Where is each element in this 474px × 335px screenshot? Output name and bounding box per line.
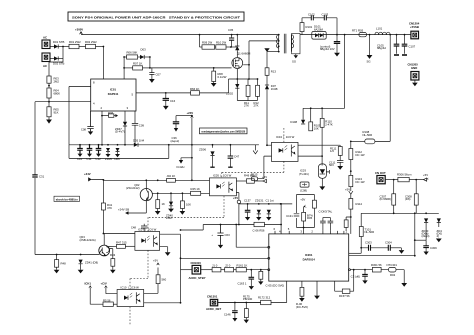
wire Q2 base row xyxy=(152,192,209,194)
resistor J12 xyxy=(221,263,234,272)
capacitor C07 xyxy=(149,68,161,83)
svg-text:SG: SG xyxy=(292,59,296,63)
resistor R203 xyxy=(344,216,351,231)
svg-text:C-05 (DC-5V0): C-05 (DC-5V0) xyxy=(266,283,285,287)
svg-text:IC05 | 1C6 W: IC05 | 1C6 W xyxy=(213,174,232,178)
capacitor C163 xyxy=(237,270,254,290)
svg-text:+24V: +24V xyxy=(84,172,91,176)
capacitor C12 below bus xyxy=(96,144,102,161)
node vcc branch xyxy=(123,56,125,58)
wire output bottom row xyxy=(349,255,415,257)
wire IC01 pin FB to divider xyxy=(49,101,91,103)
svg-text:C146: C146 xyxy=(224,312,231,316)
capacitor C09 xyxy=(132,111,145,145)
diode D101 dual xyxy=(312,25,326,39)
resistor R46 xyxy=(180,193,192,214)
svg-text:CN1310: CN1310 xyxy=(191,261,202,265)
svg-text:1K: 1K xyxy=(162,202,166,206)
node +24V left xyxy=(84,172,92,182)
shunt regulator IC03 TL431 xyxy=(299,164,329,190)
IC201 bottom pin2 network xyxy=(296,281,308,309)
resistor R45 xyxy=(191,187,201,196)
wire to IC01 VIN xyxy=(102,47,104,80)
connector CN1205 GND xyxy=(408,62,419,86)
IC201 top pin stubs xyxy=(274,227,348,234)
wire bus mid xyxy=(212,145,214,148)
svg-text:D03: D03 xyxy=(141,48,147,52)
svg-text:47K: 47K xyxy=(107,206,112,210)
resistor R04 xyxy=(47,88,60,107)
ground below R05 xyxy=(46,120,52,124)
svg-text:+5V: +5V xyxy=(262,175,267,179)
wire stby row xyxy=(181,257,268,259)
wire IC04 left pins xyxy=(264,145,272,177)
resistor R57 xyxy=(153,259,167,284)
transistor Q1 6A60M mosfet xyxy=(232,52,251,69)
svg-text:91K: 91K xyxy=(54,111,59,115)
resistor R48 xyxy=(54,255,66,274)
svg-text:C137: C137 xyxy=(244,198,251,202)
svg-text:(D6): (D6) xyxy=(405,197,411,201)
resistor R11 xyxy=(244,79,250,107)
wire ground return frame xyxy=(69,145,169,159)
svg-text:R101: R101 xyxy=(306,25,313,29)
svg-text:R06 56K: R06 56K xyxy=(127,51,138,55)
svg-text:R114: R114 xyxy=(356,202,363,206)
zener ZD47 xyxy=(115,111,127,145)
wire IC01 left pin to frame xyxy=(69,87,91,145)
svg-text:C304: C304 xyxy=(385,241,392,245)
svg-text:NTC301: NTC301 xyxy=(387,263,398,267)
svg-text:ZD02: ZD02 xyxy=(226,91,233,95)
resistor R111 xyxy=(330,146,342,160)
svg-text:ZD131: ZD131 xyxy=(255,198,264,202)
transistor Q2 xyxy=(126,180,152,200)
svg-text:6A20M: 6A20M xyxy=(314,27,324,31)
svg-text:27K: 27K xyxy=(254,103,259,107)
svg-text:C11: C11 xyxy=(87,157,92,161)
svg-text:+5VSB: +5VSB xyxy=(410,25,419,29)
svg-text:C1 1st: C1 1st xyxy=(266,198,274,202)
resistor R41 xyxy=(101,203,112,234)
svg-text:AC: AC xyxy=(43,64,47,68)
svg-text:C3 (d6): C3 (d6) xyxy=(351,275,360,279)
svg-text:(C08): (C08) xyxy=(300,188,307,192)
wire IC04 right pin1 xyxy=(298,145,340,146)
svg-text:50V: 50V xyxy=(329,163,334,167)
resistor R306 xyxy=(385,173,423,182)
svg-text:GND: GND xyxy=(411,66,417,70)
svg-text:680K: 680K xyxy=(54,92,61,96)
capacitor C202 xyxy=(323,218,333,231)
svg-text:J1 0: J1 0 xyxy=(212,263,218,267)
svg-text:SONY PS4 ORIGINAL POWER UNIT: SONY PS4 ORIGINAL POWER UNIT ADP-160CR S… xyxy=(72,16,240,20)
wire long mid vertical xyxy=(180,234,182,303)
wire IC05 out to +5V node xyxy=(236,193,239,201)
resistor R138 xyxy=(253,222,283,232)
resistor R05 xyxy=(47,107,59,120)
resistor R08 gate pulldown xyxy=(211,67,227,87)
svg-text:CN1301: CN1301 xyxy=(207,295,218,299)
capacitor C47 xyxy=(228,152,240,167)
svg-text:C303: C303 xyxy=(365,241,372,245)
svg-text:D108: D108 xyxy=(290,120,297,124)
diode D07 xyxy=(265,84,278,145)
optocoupler IC05 xyxy=(210,174,237,196)
svg-text:D05 1N4: D05 1N4 xyxy=(133,139,144,143)
capacitor C309 xyxy=(415,240,437,255)
diode D03 xyxy=(140,48,150,60)
IC201 main block xyxy=(269,234,349,281)
svg-text:D01 STB: D01 STB xyxy=(53,40,64,44)
svg-text:J02 1K: J02 1K xyxy=(167,174,176,178)
wire aux winding tap xyxy=(267,51,279,53)
svg-text:2M2: 2M2 xyxy=(54,80,60,84)
node +5V arrow right xyxy=(262,175,267,183)
capacitor C16 xyxy=(163,92,176,110)
svg-text:C63: C63 xyxy=(225,233,231,237)
svg-text:C131: C131 xyxy=(286,214,293,218)
capacitor C103 xyxy=(322,12,338,34)
svg-text:10K: 10K xyxy=(314,126,319,130)
fuse F101 xyxy=(352,28,367,36)
capacitor C36 xyxy=(171,115,193,143)
box regulator loop xyxy=(286,195,316,234)
resistor R06 node xyxy=(101,111,118,118)
capacitor C137 xyxy=(244,198,251,220)
svg-text:ebook-bn-4880.tv: ebook-bn-4880.tv xyxy=(56,197,78,201)
capacitor C106 xyxy=(402,34,416,55)
component C112 xyxy=(300,182,309,192)
svg-text:R01 2W2: R01 2W2 xyxy=(69,40,81,44)
svg-text:+300V: +300V xyxy=(75,28,83,32)
svg-text:R05: R05 xyxy=(307,216,313,220)
resistor R09 xyxy=(200,40,215,49)
svg-text:C-DIGITAL: C-DIGITAL xyxy=(319,209,333,213)
node +5V circle xyxy=(233,196,241,204)
optocoupler IC10 xyxy=(117,286,144,307)
resistor R03 xyxy=(47,76,59,88)
svg-text:4]: 4] xyxy=(437,234,440,238)
node ICH1 arrow xyxy=(85,282,104,305)
svg-text:C107: C107 xyxy=(409,45,416,49)
wire long left rail xyxy=(35,102,100,255)
svg-text:R48: R48 xyxy=(61,261,67,265)
wire source network bottom xyxy=(237,100,257,102)
resistor J02 in rail xyxy=(167,174,176,182)
diode D05 in bus xyxy=(133,139,146,147)
resistor R07 xyxy=(124,61,150,70)
capacitor C11 below bus xyxy=(87,144,93,161)
svg-text:(D-560R): (D-560R) xyxy=(380,197,392,201)
svg-text:C05: C05 xyxy=(228,28,234,32)
resistor R110 xyxy=(320,108,333,165)
svg-text:(2SB-2222A): (2SB-2222A) xyxy=(80,238,96,242)
svg-text:R49 680: R49 680 xyxy=(244,174,255,178)
resistor R12 xyxy=(254,78,260,107)
svg-text:C-06 R56: C-06 R56 xyxy=(253,229,265,233)
zener ZD301 xyxy=(422,212,430,240)
wire IC01 pin2 down xyxy=(101,111,103,145)
svg-text:27K: 27K xyxy=(244,103,249,107)
svg-text:(DC-5V0): (DC-5V0) xyxy=(296,305,308,309)
wire Q3 base link xyxy=(108,245,116,247)
resistor R301 xyxy=(371,263,382,272)
svg-text:R07 1K: R07 1K xyxy=(133,61,142,65)
IC201 bottom pin1 wire xyxy=(271,281,287,302)
svg-text:C103: C103 xyxy=(322,12,329,16)
wire Q1 source down xyxy=(236,69,238,79)
capacitor C105 xyxy=(377,34,399,55)
resistor R47 xyxy=(116,240,135,248)
svg-text:C10: C10 xyxy=(77,157,83,161)
svg-text:DAP2014: DAP2014 xyxy=(303,258,316,262)
svg-text:D06: D06 xyxy=(115,157,121,161)
svg-text:+5V: +5V xyxy=(423,173,428,177)
wire right output down xyxy=(403,270,405,283)
wire rectifier join xyxy=(49,47,63,77)
node rectifier junction xyxy=(62,46,64,48)
svg-text:PB/100: PB/100 xyxy=(243,297,253,301)
svg-text:C31: C31 xyxy=(39,175,45,179)
svg-text:sombatgenerator@yahoo.com SM3: sombatgenerator@yahoo.com SM32020 xyxy=(201,129,245,133)
wire sense row right xyxy=(361,212,439,214)
wire IC04 right pin2 to TL431 xyxy=(298,155,322,157)
resistor R01 xyxy=(69,40,86,49)
resistor R204 xyxy=(258,269,284,288)
resistor R101 snubber xyxy=(300,18,313,35)
wire Q1 aux right xyxy=(243,41,249,79)
svg-text:ZD06: ZD06 xyxy=(199,147,206,151)
label box website xyxy=(54,196,80,201)
connector CN1204 +5VSB xyxy=(409,21,420,38)
IC201 bottom pin4 network xyxy=(335,269,355,298)
wire IC10 right pins xyxy=(144,284,158,294)
resistor R02 xyxy=(85,40,103,49)
svg-text:R02 2W2: R02 2W2 xyxy=(85,40,97,44)
svg-text:R43: R43 xyxy=(110,253,116,257)
wire source row xyxy=(229,78,258,80)
wire ground bus under IC01 xyxy=(69,144,134,146)
wire clamp drop xyxy=(199,35,201,47)
svg-text:+5V: +5V xyxy=(233,196,238,200)
svg-text:ZD05: ZD05 xyxy=(105,157,112,161)
grounds under base row xyxy=(212,160,214,167)
wire sense vertical drop xyxy=(303,35,345,109)
IC201 bottom pin3 ground xyxy=(314,281,320,299)
fuse R108 NL-50R xyxy=(351,130,375,144)
wire right drop xyxy=(414,213,416,255)
resistor R114 xyxy=(349,199,363,234)
diode D01 xyxy=(50,40,64,48)
node +5Vdet arrow xyxy=(101,282,118,294)
node +24V SB arrow xyxy=(118,207,146,214)
svg-text:IC04 | 1C6 W: IC04 | 1C6 W xyxy=(276,135,295,139)
resistor R307 xyxy=(380,180,396,215)
svg-text:DC 1W: DC 1W xyxy=(356,180,365,184)
capacitor C10 below bus xyxy=(77,144,83,161)
svg-text:+24V: +24V xyxy=(187,111,194,115)
resistor R175 xyxy=(243,294,253,323)
resistor R112 xyxy=(349,149,365,176)
wire +5V row xyxy=(239,203,292,205)
svg-text:IC201: IC201 xyxy=(305,253,313,257)
capacitor C201 xyxy=(320,218,326,231)
transistor Q3 xyxy=(80,235,110,256)
transformer T1 xyxy=(277,33,301,63)
wire loop to IC201 pin xyxy=(235,224,269,249)
node secondary junction xyxy=(344,34,346,36)
svg-text:C48: C48 xyxy=(131,225,137,229)
svg-text:DAP041: DAP041 xyxy=(108,92,119,96)
resistor R13 xyxy=(265,68,276,85)
connector AC line xyxy=(42,36,50,49)
connector CN1303 OUT xyxy=(375,171,386,184)
svg-text:DC 1W: DC 1W xyxy=(356,153,365,157)
wire source to IC01 sense xyxy=(136,79,229,93)
svg-text:+5V: +5V xyxy=(153,259,158,263)
svg-text:R15? 56: R15? 56 xyxy=(339,294,350,298)
svg-text:R10 2W: R10 2W xyxy=(216,40,226,44)
capacitor C304 inline xyxy=(385,241,404,254)
node feedback taps xyxy=(310,107,312,109)
dashed feedback lines xyxy=(130,128,284,325)
node +5V arrow xyxy=(345,187,353,198)
resistor R109 xyxy=(309,108,321,131)
svg-text:C47: C47 xyxy=(234,154,240,158)
svg-text:2x1K: 2x1K xyxy=(166,216,173,220)
wire regulator chain xyxy=(350,141,352,148)
title block xyxy=(68,12,244,21)
resistor R56 xyxy=(103,299,117,307)
svg-text:ZD41 (D8): ZD41 (D8) xyxy=(85,261,98,265)
connector AC neutral xyxy=(42,53,50,68)
resistor R172 xyxy=(218,295,271,304)
wire +300V rail xyxy=(81,34,279,36)
zener ZD06 xyxy=(199,147,214,160)
optocoupler IC04 xyxy=(272,135,299,161)
svg-text:6Bg/4d: 6Bg/4d xyxy=(377,46,386,50)
zener ZD132 xyxy=(266,198,274,220)
zener ZD131 xyxy=(255,198,264,220)
capacitor C63 xyxy=(211,224,230,249)
node +5V out arrow xyxy=(423,173,428,181)
resistor R49 xyxy=(236,174,263,184)
node +24V top xyxy=(187,111,194,180)
wire gate node join xyxy=(149,57,151,68)
svg-text:+5V: +5V xyxy=(300,197,305,201)
svg-text:ACDC_DET: ACDC_DET xyxy=(206,307,222,311)
svg-text:IC42H: IC42H xyxy=(177,165,185,169)
capacitor C48 xyxy=(131,224,148,232)
wire gate-drive branch left xyxy=(123,57,125,79)
svg-text:+24V SB: +24V SB xyxy=(118,207,129,211)
capacitor C146 xyxy=(224,303,238,322)
wire mid-right riser xyxy=(360,213,362,253)
diode D06 below bus xyxy=(115,144,121,161)
svg-text:+C/V: +C/V xyxy=(101,282,107,286)
node +300V xyxy=(75,28,83,35)
svg-text:RT1 R05: RT1 R05 xyxy=(352,28,364,32)
resistor J11 xyxy=(201,263,221,272)
svg-text:NL-50R: NL-50R xyxy=(363,133,373,137)
wire to R01 xyxy=(63,46,69,48)
svg-text:C16: C16 xyxy=(170,99,176,103)
resistor R308 xyxy=(405,180,418,214)
capacitor C301 xyxy=(351,270,368,284)
svg-text:R47 315: R47 315 xyxy=(116,240,127,244)
resistor R161 xyxy=(234,263,270,272)
op-amp controller IC01 DAP041 xyxy=(91,79,136,111)
resistor R66 xyxy=(190,87,200,95)
resistor R06g xyxy=(124,51,140,60)
svg-text:1N48: 1N48 xyxy=(271,87,278,91)
svg-text:0.1/2W: 0.1/2W xyxy=(218,75,227,79)
svg-text:R45 1K: R45 1K xyxy=(191,187,200,191)
svg-text:AC: AC xyxy=(43,36,47,40)
wire primary tap to Q1 aux xyxy=(249,40,279,42)
diode D108 xyxy=(290,108,305,124)
svg-text:R13: R13 xyxy=(271,70,277,74)
wire gate line to Q1 xyxy=(150,67,232,69)
svg-text:10K: 10K xyxy=(186,203,191,207)
wire +24V rail xyxy=(92,178,210,181)
svg-text:CN OUT: CN OUT xyxy=(375,171,386,175)
capacitor C303 inline xyxy=(361,241,388,251)
svg-text:L101: L101 xyxy=(376,26,383,30)
svg-text:1/6: 1/6 xyxy=(330,149,334,153)
svg-text:(2kq4): (2kq4) xyxy=(422,234,430,238)
wire bus continue xyxy=(146,144,192,146)
diode D02 xyxy=(50,56,64,65)
diode D04 drain clamp xyxy=(235,34,239,51)
resistor T101 xyxy=(359,227,363,237)
svg-text:(depol): (depol) xyxy=(171,139,180,143)
wire Q3 collector drop xyxy=(102,180,104,203)
svg-text:R306 56om: R306 56om xyxy=(397,173,412,177)
IC201 right pin wires xyxy=(349,252,362,254)
zener ZD02 xyxy=(226,79,239,101)
wire +5V sense row xyxy=(238,204,240,225)
svg-text:C08: C08 xyxy=(81,128,87,132)
svg-text:SG: SG xyxy=(367,59,371,63)
svg-text:C07: C07 xyxy=(156,73,162,77)
svg-text:R161 1K: R161 1K xyxy=(237,263,248,267)
capacitor C102 xyxy=(308,12,324,20)
wire +5V drop to IC201 xyxy=(280,204,282,234)
zener ZD05 below bus xyxy=(105,144,112,161)
node IC42H stub xyxy=(177,157,193,169)
svg-text:2-47K: 2-47K xyxy=(325,122,333,126)
connector CN1310 xyxy=(181,261,206,280)
wire IC07 right pins xyxy=(160,233,181,235)
svg-text:ACDC_STBY: ACDC_STBY xyxy=(189,276,206,280)
svg-text:6Bg/4d 10V: 6Bg/4d 10V xyxy=(320,47,335,51)
node SG xyxy=(367,34,373,64)
optocoupler IC07 xyxy=(135,227,160,250)
svg-text:J2 0: J2 0 xyxy=(225,263,231,267)
component R115 xyxy=(251,173,264,181)
resistor R44 xyxy=(155,193,165,214)
svg-text:(2SC2412): (2SC2412) xyxy=(126,186,140,190)
svg-text:C09: C09 xyxy=(139,124,145,128)
svg-text:R172 312: R172 312 xyxy=(258,295,271,299)
wire det row xyxy=(218,302,261,304)
wire Q3 collector link xyxy=(103,234,134,246)
resistor R113 xyxy=(349,175,365,191)
capacitor C111 xyxy=(329,160,343,169)
svg-text:560: 560 xyxy=(162,278,167,282)
